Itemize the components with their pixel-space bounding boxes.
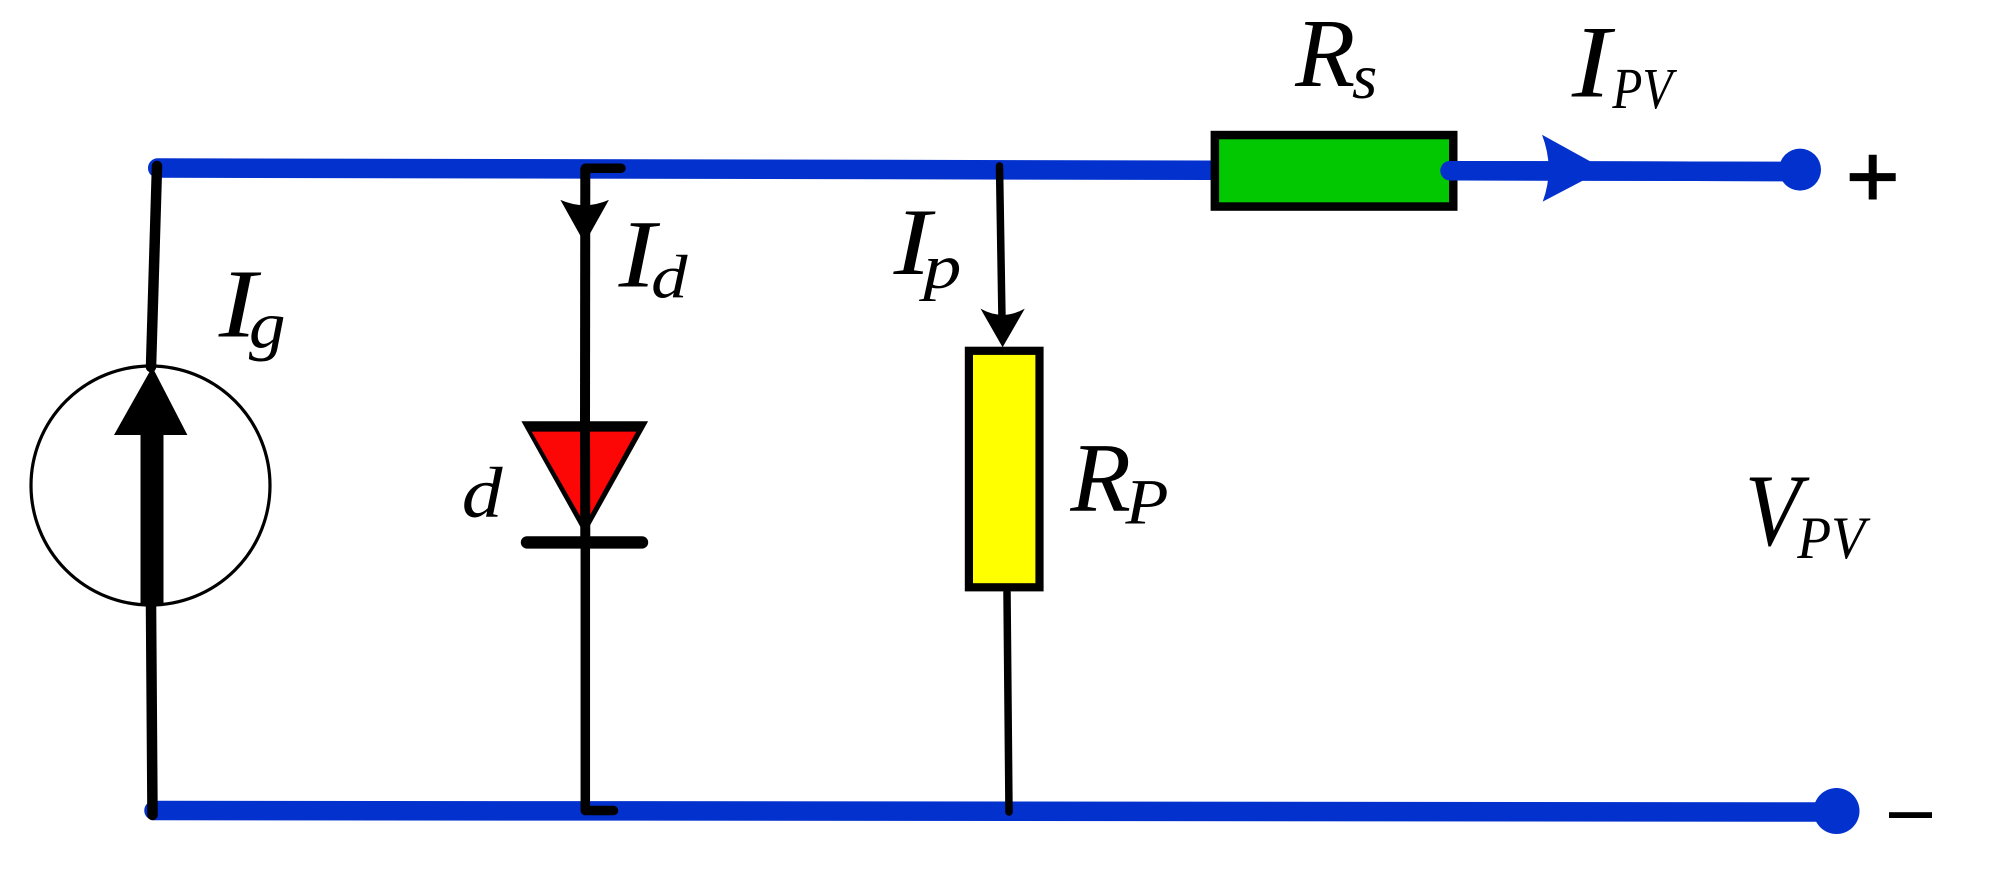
arrow Ip direction [981,309,1025,348]
svg-text:PV: PV [1612,56,1678,121]
resistor Rs body [1215,135,1453,207]
wire diode branch top hook [585,168,621,172]
wire after Rs with round cap [1450,161,1800,181]
svg-text:R: R [1069,424,1131,533]
current source U1 circle [31,366,270,605]
diode cathode bar [527,536,642,548]
svg-text:s: s [1352,42,1377,112]
wire Rp branch upper [1000,166,1003,320]
wire diode branch upper [580,168,590,425]
label - (minus) [1889,812,1932,818]
svg-text:g: g [249,290,286,363]
wire diode branch through triangle [580,427,590,540]
wire Rp branch lower [1007,592,1009,812]
node - terminal dot [1814,788,1860,834]
arrow Id direction [560,200,609,243]
node + terminal dot [1779,149,1821,191]
wire diode branch lower with bottom hook [585,542,613,811]
label + [1850,155,1896,200]
wire left branch lower [151,604,153,815]
resistor RP body [969,351,1040,588]
svg-text:d: d [651,243,688,311]
svg-text:d: d [462,454,503,533]
current source arrow Ig direction [114,367,187,604]
svg-text:p: p [919,234,962,302]
svg-text:I: I [1571,6,1616,120]
svg-text:PV: PV [1796,505,1871,571]
wire left branch upper [151,166,157,367]
arrow IPV direction (blue) [1542,135,1605,202]
wire top rail [158,168,1800,172]
svg-text:P: P [1124,466,1168,538]
wire bottom rail [154,811,1836,813]
diode d triangle [521,421,648,534]
svg-text:R: R [1294,0,1355,108]
